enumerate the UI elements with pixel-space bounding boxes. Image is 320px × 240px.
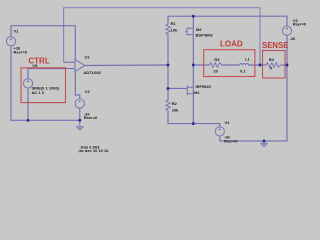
node sense right <box>286 64 289 67</box>
svg-text:V4: V4 <box>225 120 231 125</box>
inductor L1 <box>239 64 248 65</box>
node V2 ground <box>78 119 81 122</box>
simulation directives <box>78 144 109 153</box>
wire M2 drain chain vertical <box>192 16 194 123</box>
svg-text:U1: U1 <box>85 55 91 60</box>
svg-text:Rser=0: Rser=0 <box>14 50 28 55</box>
svg-text:Rser=0: Rser=0 <box>224 139 238 144</box>
op-amp U1 <box>75 60 85 72</box>
node right ground <box>263 139 266 142</box>
node feedback sense <box>259 64 262 67</box>
svg-text:SENSE: SENSE <box>262 41 289 50</box>
svg-text:0.1: 0.1 <box>240 69 246 74</box>
voltage source V5 <box>23 79 32 88</box>
labels V5 <box>32 63 60 95</box>
svg-text:V2: V2 <box>85 89 91 94</box>
wire V2 bottom to ground <box>79 108 81 120</box>
svg-text:10k: 10k <box>171 28 178 33</box>
labels L1 <box>240 57 250 74</box>
labels V1 <box>14 29 28 55</box>
svg-text:AC 1 0: AC 1 0 <box>32 90 45 95</box>
ground right <box>261 141 268 147</box>
labels R3 <box>213 57 220 74</box>
wire load R3 to L1 <box>222 64 240 66</box>
wire opamp +in <box>64 61 75 63</box>
labels V4 <box>224 120 238 144</box>
wire top rail to V3 <box>168 16 287 26</box>
labels U1 <box>84 55 102 76</box>
voltage source V2 <box>75 99 84 108</box>
labels M2 <box>196 27 214 38</box>
labels V3 <box>290 18 307 41</box>
svg-text:L1: L1 <box>245 57 250 62</box>
voltage source V4 <box>215 127 224 136</box>
svg-text:V5: V5 <box>32 63 38 68</box>
node top rail M2 <box>192 15 195 18</box>
wire V1 to opamp V+ pin <box>11 26 75 60</box>
source polarity marks <box>10 28 288 131</box>
svg-text:LOAD: LOAD <box>220 40 243 49</box>
svg-text:R4: R4 <box>269 57 275 62</box>
labels V2 <box>84 89 98 120</box>
resistor R3 <box>209 63 221 67</box>
node output to load <box>192 64 195 67</box>
node M1 source <box>192 122 195 125</box>
labels M1 <box>194 84 212 95</box>
wire opamp output <box>85 64 168 67</box>
svg-text:M2: M2 <box>196 27 202 32</box>
svg-text:IRF9540: IRF9540 <box>196 84 212 89</box>
wire output node to load <box>193 64 209 66</box>
wire V5 bottom <box>27 88 29 120</box>
resistor R4 <box>266 63 281 67</box>
wire V3 bottom down right rail <box>220 35 287 141</box>
node V5 ground <box>27 119 30 122</box>
wire sense R4 to V3 net <box>281 64 287 66</box>
ground left <box>76 120 83 130</box>
wire gate M1 <box>168 87 187 89</box>
svg-text:ADTL082: ADTL082 <box>84 70 102 75</box>
svg-text:M1: M1 <box>194 90 200 95</box>
voltage source V1 <box>6 37 15 46</box>
svg-text:Rser=0: Rser=0 <box>293 22 307 27</box>
svg-text:20: 20 <box>213 69 218 74</box>
labels R1 <box>171 21 178 32</box>
red box LOAD <box>204 50 255 77</box>
voltage source V3 <box>282 26 291 35</box>
wire V5 top to opamp -in <box>28 69 75 79</box>
svg-text:R3: R3 <box>214 57 220 62</box>
svg-text:Rser=0: Rser=0 <box>84 115 98 120</box>
svg-text:10k: 10k <box>172 107 179 112</box>
mosfet M1 <box>187 85 193 95</box>
wire middle rail R1 bottom to R2 top <box>167 35 169 99</box>
resistor R1 <box>166 23 170 35</box>
svg-text:V1: V1 <box>14 29 20 34</box>
wire feedback top <box>64 8 260 65</box>
mosfet M2 <box>185 28 193 36</box>
svg-text:R2: R2 <box>172 101 178 106</box>
svg-text:-26: -26 <box>290 36 297 41</box>
node opamp out / R divider <box>167 64 170 67</box>
svg-text:R1: R1 <box>171 21 177 26</box>
red box CTRL <box>21 68 66 103</box>
wire R2 bottom to V4 top <box>168 111 220 127</box>
svg-text:BSP4608: BSP4608 <box>196 33 214 38</box>
red box SENSE <box>263 51 286 79</box>
wire V1 bottom to ground rail <box>11 46 80 120</box>
wire opamp V- pin to V2 <box>75 71 80 99</box>
resistor R2 <box>166 99 170 112</box>
labels R2 <box>172 101 179 112</box>
svg-text:;ac dec 10 10 1k: ;ac dec 10 10 1k <box>78 148 109 153</box>
labels R4 sense <box>269 57 275 70</box>
node gate M1 <box>167 87 170 90</box>
wire L1 to sense node <box>248 64 266 66</box>
